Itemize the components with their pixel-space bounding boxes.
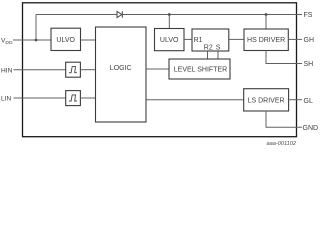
- svg-text:aaa-001102: aaa-001102: [267, 141, 297, 147]
- wire LOGIC to level shifter: [146, 68, 169, 70]
- svg-text:ULVO: ULVO: [160, 37, 179, 44]
- wire bootstrap riser: [35, 15, 37, 41]
- wire ULVO to LOGIC: [81, 39, 96, 41]
- svg-text:LS DRIVER: LS DRIVER: [248, 97, 285, 104]
- block LOGIC: [96, 27, 147, 122]
- wire riser to ULVO U2: [168, 15, 170, 29]
- wire latch R2 to level shifter: [207, 51, 209, 59]
- svg-text:HIN: HIN: [1, 67, 13, 74]
- wire GL output: [289, 99, 302, 101]
- svg-text:LEVEL SHIFTER: LEVEL SHIFTER: [174, 67, 227, 74]
- node VDD junction: [35, 39, 38, 42]
- wire pulse filter to LOGIC (LIN): [80, 97, 95, 99]
- block HS DRIVER: [244, 29, 288, 51]
- wire VDD input: [13, 39, 51, 41]
- block pulse filter (HIN): [66, 62, 81, 77]
- wire ULVO U2 to latch: [184, 38, 192, 40]
- block pulse filter (LIN): [66, 91, 81, 106]
- node bootstrap/HS junction: [265, 13, 268, 16]
- wire pulse filter to LOGIC (HIN): [80, 69, 95, 71]
- svg-text:GND: GND: [303, 125, 319, 132]
- wire LOGIC to LS driver: [146, 99, 244, 101]
- wire latch to HS driver: [229, 38, 244, 40]
- wire riser to HS driver: [265, 15, 267, 30]
- block ULVO U1: [51, 28, 81, 50]
- wire GND: [266, 111, 302, 127]
- svg-text:LIN: LIN: [1, 96, 11, 103]
- svg-text:ULVO: ULVO: [56, 37, 75, 44]
- block latch R1/R2/S: [192, 29, 229, 52]
- diode D1: [117, 11, 122, 18]
- node bootstrap/ULVO junction: [168, 13, 171, 16]
- wire SH output: [266, 51, 302, 64]
- block LEVEL SHIFTER: [169, 59, 230, 79]
- svg-text:FS: FS: [304, 12, 313, 19]
- svg-text:VDD: VDD: [1, 38, 13, 46]
- svg-text:R2: R2: [204, 45, 213, 52]
- block LS DRIVER: [244, 89, 289, 111]
- svg-text:HS DRIVER: HS DRIVER: [247, 37, 285, 44]
- svg-text:R1: R1: [194, 37, 203, 44]
- svg-text:SH: SH: [304, 61, 314, 68]
- wire bootstrap/FS top rail: [36, 14, 302, 16]
- wire latch S to level shifter: [217, 51, 219, 59]
- svg-text:GL: GL: [304, 98, 313, 105]
- svg-text:S: S: [216, 45, 221, 52]
- block ULVO U2: [155, 29, 185, 51]
- IC outline border: [23, 3, 297, 137]
- wire LIN input: [14, 97, 66, 99]
- svg-text:LOGIC: LOGIC: [110, 65, 132, 72]
- wire HIN input: [14, 69, 66, 71]
- wire GH output: [288, 38, 302, 40]
- svg-text:GH: GH: [304, 37, 315, 44]
